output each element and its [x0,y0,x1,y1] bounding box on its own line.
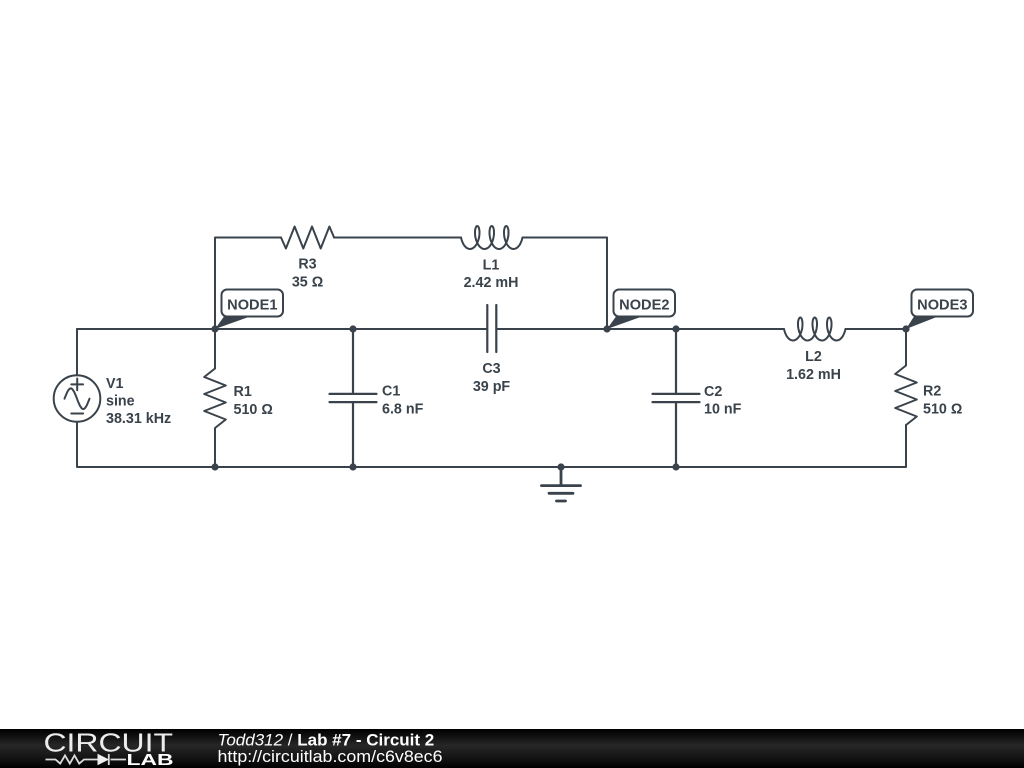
resistor R1 [204,329,226,467]
label C2 [704,384,742,418]
svg-text:6.8 nF: 6.8 nF [382,402,424,418]
svg-text:NODE2: NODE2 [619,298,669,314]
junction C2 top [672,325,679,332]
resistor R3 [281,227,334,249]
svg-text:R1: R1 [234,384,252,400]
wire top branch [215,238,607,330]
label L2 [786,349,841,383]
wire L2 to NODE3 [846,328,907,330]
svg-text:http://circuitlab.com/c6v8ec6: http://circuitlab.com/c6v8ec6 [218,747,443,766]
junction R1 bottom [211,463,218,470]
logo diode triangle [98,754,110,765]
svg-text:L1: L1 [483,258,500,274]
node NODE1 callout [215,290,283,330]
svg-text:38.31 kHz: 38.31 kHz [106,411,171,427]
ground [542,467,581,501]
wire main horizontal left segment [77,328,487,330]
capacitor C2 [653,329,700,467]
label C1 [382,384,424,418]
capacitor C1 [330,329,377,467]
label R3 [292,257,323,291]
junction ground [557,463,564,470]
node NODE3 callout [906,290,973,330]
svg-text:C1: C1 [382,384,400,400]
label C3 [473,361,511,395]
svg-text:LAB: LAB [127,752,174,768]
svg-text:35 Ω: 35 Ω [292,275,323,291]
label R1 [234,384,273,418]
resistor R2 [895,329,917,425]
svg-text:sine: sine [106,394,135,410]
svg-text:NODE3: NODE3 [917,298,967,314]
label L1 [464,258,519,292]
node NODE2 callout [607,290,675,330]
svg-text:1.62 mH: 1.62 mH [786,367,841,383]
svg-text:L2: L2 [805,349,822,365]
svg-text:C3: C3 [482,361,500,377]
svg-text:C2: C2 [704,384,722,400]
svg-text:2.42 mH: 2.42 mH [464,275,519,291]
svg-text:510 Ω: 510 Ω [234,402,273,418]
junction NODE3 (R2 top) [902,325,909,332]
svg-text:V1: V1 [106,376,124,392]
svg-text:39 pF: 39 pF [473,379,511,395]
junction C1 top [349,325,356,332]
svg-text:R3: R3 [298,257,316,273]
svg-text:510 Ω: 510 Ω [923,402,962,418]
svg-text:10 nF: 10 nF [704,402,742,418]
svg-text:NODE1: NODE1 [227,298,277,314]
junction C1 bottom [349,463,356,470]
label R2 [923,384,962,418]
junction C2 bottom [672,463,679,470]
wire bottom rail [77,329,906,467]
svg-text:R2: R2 [923,384,941,400]
inductor L1 [461,226,523,249]
capacitor C3 [487,305,496,352]
junction NODE1 (R1 top) [211,325,218,332]
voltage source V1 [54,375,101,422]
label V1 [106,376,171,427]
junction NODE2 [603,325,610,332]
logo resistor-diode line [46,754,127,765]
wire main horizontal right segment [497,328,785,330]
inductor L2 [784,318,846,341]
